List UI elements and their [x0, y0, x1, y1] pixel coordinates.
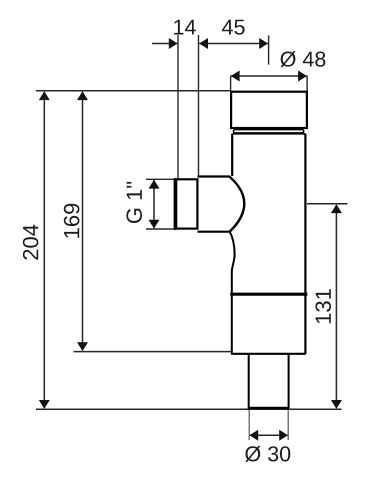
valve body left edge lower with bulge	[230, 232, 235, 354]
dimension 14 extension line left (nut left edge up)	[177, 35, 179, 178]
dimension 169 line	[77, 91, 88, 351]
dimension 45 line with arrows	[199, 38, 268, 49]
outlet tube	[249, 355, 289, 408]
valve body bottom edge	[231, 353, 306, 355]
valve top cap	[231, 92, 307, 128]
dimension Ø48 label	[280, 51, 325, 67]
dimension 131 line	[331, 204, 342, 408]
body separator thick line	[230, 293, 307, 296]
dimension 169 label	[64, 204, 80, 238]
inlet nut left edge thick	[174, 178, 177, 230]
valve body left edge upper	[231, 134, 233, 176]
dimension G1 line with arrows	[149, 180, 160, 229]
dimension 14/45 shared extension line (nut right edge up)	[198, 35, 200, 177]
inlet dome nose arc	[229, 176, 244, 231]
dimension 14 line with outside arrow	[152, 38, 178, 49]
extension line bottom (tube bottom, 204/131 target)	[36, 408, 342, 410]
dimension 45 extension line right (body axis)	[268, 35, 270, 64]
dimension Ø48 line with arrows	[231, 71, 307, 82]
dimension Ø30 line with arrows	[249, 430, 288, 441]
dimension G1 extension line top	[146, 178, 176, 180]
inlet nut	[176, 179, 197, 228]
dimension 45 label	[222, 20, 245, 35]
dimension 204 line	[39, 91, 50, 409]
inlet dome top edge	[198, 175, 230, 177]
dimension 204 label	[23, 225, 39, 260]
valve body right edge	[304, 134, 306, 354]
extension line right at inlet axis (131 target)	[307, 203, 348, 205]
dimension 131 label	[315, 289, 331, 323]
inlet dome bottom edge	[198, 231, 232, 233]
extension line mid-left at body bottom (169 target)	[74, 351, 232, 353]
dimension G1 label	[126, 182, 142, 223]
dimension Ø30 extension lines (tube edges down)	[248, 410, 250, 440]
outlet tube bottom edge	[248, 407, 290, 409]
dimension 14 label	[174, 20, 196, 35]
dimension G1 extension line bottom	[146, 228, 176, 230]
valve body top edge	[232, 133, 305, 135]
extension line top (from 204/169 to cap)	[36, 90, 231, 92]
dimension Ø48 extension lines (cap edges up)	[230, 76, 232, 92]
cap/body ring	[233, 130, 303, 133]
dimension Ø30 label	[245, 446, 290, 462]
